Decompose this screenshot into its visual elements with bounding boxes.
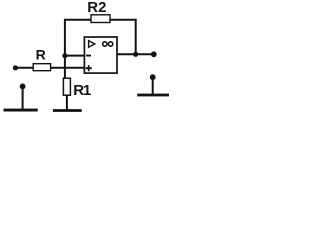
wire: feedback top horizontal to R2 bbox=[64, 19, 91, 21]
resistor R2 bbox=[91, 15, 110, 23]
svg-text:R1: R1 bbox=[73, 82, 91, 99]
op-amp U1 body bbox=[84, 37, 117, 73]
op-amp U1 triangle amplifier symbol bbox=[89, 41, 95, 48]
node Vout: output terminal dot bbox=[151, 51, 157, 57]
wire: feedback right vertical down to output node B bbox=[135, 19, 137, 54]
wire: R1 bottom to ground bbox=[66, 95, 68, 109]
op-amp U1 infinity (ideal gain) symbol bbox=[103, 42, 113, 46]
svg-text:R2: R2 bbox=[87, 0, 106, 16]
node: lower input terminal dot bbox=[20, 84, 26, 90]
svg-text:R: R bbox=[36, 47, 46, 63]
wire: feedback vertical from top corner through node A down to R1 bbox=[64, 19, 66, 79]
wire: R to op-amp + input (crosses feedback line, no connection) bbox=[51, 67, 85, 69]
node Vin: input terminal dot bbox=[13, 65, 18, 70]
node: output ground terminal dot bbox=[150, 74, 156, 80]
ground bar under R1 bbox=[53, 109, 82, 112]
resistor R bbox=[33, 64, 50, 71]
op-amp U1 minus input mark bbox=[86, 55, 91, 57]
wire: op-amp output bbox=[117, 53, 154, 55]
wire: node A to op-amp inverting input bbox=[65, 55, 85, 57]
wire: R2 to top right corner bbox=[110, 19, 137, 21]
wire: lower input terminal to ground bbox=[22, 86, 24, 109]
wire: input terminal to resistor R bbox=[15, 67, 33, 69]
node A: junction dot (inverting input node) bbox=[62, 53, 67, 58]
resistor R1 bbox=[63, 78, 70, 95]
wire: output ground terminal down to ground bbox=[152, 77, 154, 94]
node B: junction dot (feedback tap on output) bbox=[133, 52, 138, 57]
ground bar right bbox=[137, 94, 169, 97]
op-amp U1 plus input mark bbox=[86, 65, 92, 71]
ground bar lower left bbox=[4, 109, 38, 112]
